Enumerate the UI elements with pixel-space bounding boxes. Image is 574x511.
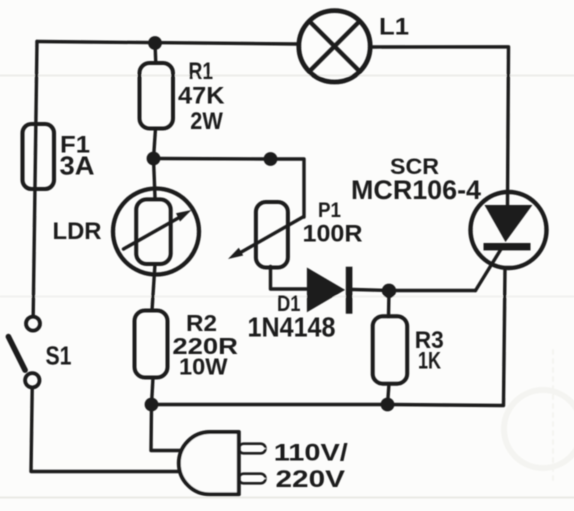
svg-text:47K: 47K	[178, 83, 225, 110]
label F1 3A	[60, 132, 95, 181]
wire top-left horizontal	[37, 42, 297, 45]
svg-text:220V: 220V	[276, 466, 346, 493]
wire R1 bottom stem	[154, 129, 156, 159]
svg-text:2W: 2W	[190, 108, 223, 135]
label SCR MCR106-4	[351, 154, 481, 205]
label L1	[379, 14, 409, 41]
plug prong lower	[239, 474, 267, 484]
LDR	[113, 189, 199, 275]
thyristor SCR U1	[471, 192, 547, 268]
switch S1	[8, 317, 40, 388]
wire node F to plug	[151, 405, 183, 451]
wire R1 top stem	[153, 43, 157, 63]
label 110V/220V	[274, 440, 348, 494]
wire R2 bottom stem	[152, 378, 154, 405]
svg-text:1N4148: 1N4148	[248, 312, 336, 343]
label R1 47K 2W	[178, 58, 225, 135]
label LDR	[53, 218, 102, 245]
wire node D to R3	[387, 291, 391, 317]
plug body	[179, 432, 239, 494]
node A junction dot	[148, 36, 162, 50]
label S1	[46, 341, 72, 371]
label D1 1N4148	[248, 291, 336, 343]
svg-text:110V/: 110V/	[274, 440, 348, 467]
plug prong upper	[239, 444, 267, 454]
label R2 220R 10W	[172, 310, 238, 380]
svg-text:3A: 3A	[60, 151, 95, 181]
svg-text:R1: R1	[189, 58, 214, 85]
node E junction dot	[381, 398, 395, 412]
svg-text:LDR: LDR	[53, 218, 102, 245]
wire bottom rail	[152, 268, 506, 406]
wire SCR gate diagonal	[476, 248, 503, 291]
scan artifact faint line top	[0, 75, 574, 77]
label R3 1K	[415, 327, 444, 375]
resistor R1	[140, 63, 174, 129]
potentiometer P1	[228, 202, 304, 268]
node D junction dot	[382, 284, 396, 298]
node F junction dot	[145, 398, 159, 412]
svg-text:MCR106-4: MCR106-4	[351, 175, 481, 205]
scan artifact faint line bottom	[0, 497, 574, 499]
node C junction dot	[264, 152, 278, 166]
resistor R3	[373, 316, 408, 384]
wire node B to P1 top	[154, 159, 305, 218]
resistor R2	[135, 311, 168, 378]
wire left rail vertical	[33, 42, 37, 316]
diode D1	[307, 267, 353, 314]
wire P1 bottom to D1	[271, 267, 307, 290]
svg-text:1K: 1K	[418, 348, 441, 375]
svg-text:100R: 100R	[303, 221, 363, 248]
fuse F1	[23, 124, 55, 189]
wire S1 bottom to plug	[31, 389, 183, 472]
wire LDR top stem	[154, 159, 156, 198]
wire lamp right to SCR anode	[373, 47, 509, 206]
svg-text:10W: 10W	[179, 354, 228, 380]
wire R3 bottom stem	[388, 384, 390, 405]
svg-text:P1: P1	[318, 199, 341, 222]
svg-text:L1: L1	[379, 14, 409, 41]
label P1 100R	[303, 199, 363, 248]
scan artifact faint line middle	[0, 296, 574, 298]
scan artifact ghost circle	[504, 350, 574, 480]
wire LDR bottom stem	[152, 264, 155, 311]
wire D1 to node D to gate	[352, 290, 475, 291]
svg-text:S1: S1	[46, 341, 72, 371]
node B junction dot	[147, 152, 161, 166]
lamp L1	[299, 11, 370, 82]
